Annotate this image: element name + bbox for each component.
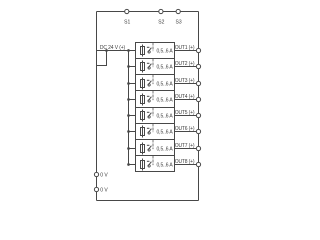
wire: feed stub ch7	[129, 148, 136, 150]
svg-text:S2: S2	[158, 20, 164, 26]
wire: output ch7	[175, 148, 197, 150]
svg-text:OUT2 (+): OUT2 (+)	[175, 61, 195, 67]
svg-text:0,5..6 A: 0,5..6 A	[157, 64, 174, 70]
wire: feed stub ch6	[129, 131, 136, 133]
terminal 0V #1	[94, 172, 108, 178]
svg-text:0,5..6 A: 0,5..6 A	[157, 129, 174, 135]
wire: output ch8	[175, 164, 197, 166]
terminal S2	[158, 9, 164, 25]
fuse F8	[141, 159, 145, 171]
svg-text:S1: S1	[124, 20, 130, 26]
channel CB7 block	[136, 140, 175, 156]
fuse F3	[141, 78, 145, 90]
junction: bus node ch5	[127, 114, 130, 117]
wire: bottom return	[97, 200, 199, 202]
svg-text:0,5..6 A: 0,5..6 A	[157, 48, 174, 54]
svg-text:0 V: 0 V	[100, 172, 108, 178]
svg-text:OUT7 (+): OUT7 (+)	[175, 143, 195, 149]
junction: bus node ch3	[127, 82, 130, 85]
channel CB2 block	[136, 59, 175, 75]
wire: feed stub ch4	[129, 99, 136, 101]
terminal OUT2	[196, 64, 200, 68]
control line ch5	[152, 108, 154, 117]
control line ch8	[152, 156, 154, 166]
svg-text:OUT4 (+): OUT4 (+)	[175, 94, 195, 100]
terminal S3	[176, 9, 182, 25]
junction: bus node ch7	[127, 147, 130, 150]
svg-text:0,5..6 A: 0,5..6 A	[157, 81, 174, 87]
fuse F7	[141, 143, 145, 155]
junction: bus node ch4	[127, 98, 130, 101]
terminal OUT4	[196, 97, 200, 101]
terminal 0V #2	[94, 187, 108, 193]
wire: output ch6	[175, 131, 197, 133]
terminal OUT8	[196, 162, 200, 166]
wire: internal supply loop	[97, 51, 107, 66]
wire: feed stub ch2	[129, 66, 136, 68]
wire: +24V distribution bus	[128, 51, 130, 165]
control line ch3	[152, 75, 154, 85]
fuse F4	[141, 94, 145, 106]
channel CB3 block	[136, 75, 175, 91]
junction: bus node ch8	[127, 163, 130, 166]
wire: feed stub ch8	[129, 164, 136, 166]
control line ch7	[152, 140, 154, 150]
wire: output ch5	[175, 115, 197, 117]
svg-text:OUT6 (+): OUT6 (+)	[175, 126, 195, 132]
wire: feed stub ch1	[129, 50, 136, 52]
terminal OUT1	[196, 48, 200, 52]
wire: left 0V rail	[96, 12, 98, 201]
fuse F6	[141, 126, 145, 138]
svg-text:OUT3 (+): OUT3 (+)	[175, 78, 195, 84]
electronic switch contact ch8	[147, 161, 152, 167]
control line ch4	[152, 91, 154, 101]
terminal S1	[124, 9, 130, 25]
control line ch6	[152, 124, 154, 133]
svg-text:0,5..6 A: 0,5..6 A	[157, 146, 174, 152]
electronic switch contact ch3	[147, 80, 152, 86]
junction: bus node ch6	[127, 130, 130, 133]
electronic switch contact ch1	[147, 47, 152, 53]
svg-text:0,5..6 A: 0,5..6 A	[157, 97, 174, 103]
control line ch1	[152, 43, 154, 52]
electronic switch contact ch4	[147, 96, 152, 102]
terminal OUT3	[196, 81, 200, 85]
channel CB8 block	[136, 156, 175, 172]
wire: right OUT rail	[198, 12, 200, 201]
wire: feed stub ch5	[129, 115, 136, 117]
wire: top S bus	[97, 11, 199, 13]
wire: output ch2	[175, 66, 197, 68]
junction: bus node ch1	[127, 49, 130, 52]
electronic switch contact ch2	[147, 63, 152, 69]
fuse F5	[141, 110, 145, 122]
svg-text:OUT1 (+): OUT1 (+)	[175, 45, 195, 51]
svg-text:0,5..6 A: 0,5..6 A	[157, 113, 174, 119]
electronic switch contact ch6	[147, 128, 152, 134]
terminal OUT5	[196, 113, 200, 117]
channel CB1 block	[136, 43, 175, 59]
svg-text:S3: S3	[176, 20, 182, 26]
control line ch2	[152, 59, 154, 68]
svg-text:0 V: 0 V	[100, 187, 108, 193]
junction: bus node ch2	[127, 65, 130, 68]
wire: output ch1	[175, 50, 197, 52]
fuse F2	[141, 61, 145, 73]
channel CB4 block	[136, 91, 175, 108]
wire: output ch4	[175, 99, 197, 101]
channel CB5 block	[136, 108, 175, 124]
wire: output ch3	[175, 83, 197, 85]
electronic switch contact ch5	[147, 112, 152, 118]
terminal OUT6	[196, 129, 200, 133]
svg-text:OUT5 (+): OUT5 (+)	[175, 110, 195, 116]
wire: DC 24V feed	[97, 50, 129, 52]
terminal OUT7	[196, 146, 200, 150]
fuse F1	[141, 45, 145, 57]
svg-text:OUT8 (+): OUT8 (+)	[175, 159, 195, 165]
wire: feed stub ch3	[129, 83, 136, 85]
junction: DC feed node	[105, 49, 108, 52]
svg-text:0,5..6 A: 0,5..6 A	[157, 162, 174, 168]
electronic switch contact ch7	[147, 145, 152, 151]
channel CB6 block	[136, 124, 175, 140]
